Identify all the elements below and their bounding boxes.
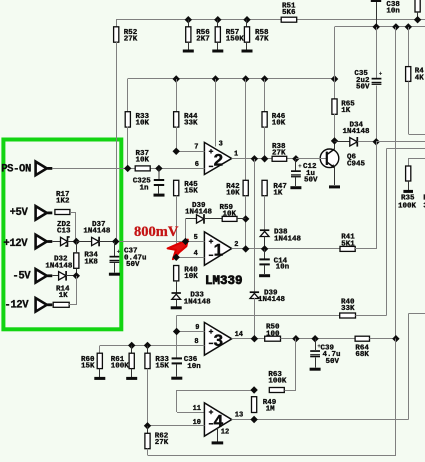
svg-text:1N4148: 1N4148 — [83, 228, 111, 236]
svg-text:1N4148: 1N4148 — [274, 235, 302, 243]
svg-text:50V: 50V — [304, 177, 318, 185]
svg-text:7: 7 — [194, 144, 198, 152]
svg-text:13: 13 — [235, 411, 243, 419]
label +12V — [3, 238, 28, 250]
ground R57 — [212, 42, 223, 52]
resistor R49 — [252, 397, 277, 414]
red probe arrow — [168, 240, 188, 260]
green highlight box — [3, 140, 121, 330]
ground comparator 4 — [212, 441, 224, 444]
node R63 riser junction — [292, 335, 299, 342]
wire right stub y158.8 — [408, 158, 425, 160]
resistor R38 — [272, 143, 287, 161]
resistor R59 — [220, 204, 246, 221]
node pin8-R33 junction — [144, 342, 151, 349]
svg-text:2: 2 — [214, 150, 223, 169]
wire R65 to collector node — [334, 114, 336, 141]
node pin8-R61 junction — [128, 342, 135, 349]
wire right stub y148 — [387, 148, 425, 150]
node bus2-railB junction — [392, 23, 399, 30]
node out1-D38-C14 junction — [261, 245, 268, 252]
node R49 top junction — [250, 386, 257, 393]
node bus3-R42 junction — [242, 75, 249, 82]
node rail1-R57 junction — [214, 16, 221, 23]
svg-text:1N4148: 1N4148 — [184, 298, 212, 306]
pin 13 label — [235, 411, 243, 419]
node out4-R49 junction — [250, 416, 257, 423]
svg-text:27K: 27K — [124, 36, 138, 44]
pin 10 wire — [144, 419, 205, 430]
resistor R64 — [355, 336, 369, 359]
wire bus3 left corner down — [127, 79, 129, 113]
svg-text:1K: 1K — [59, 292, 69, 300]
node bus3 right end junction — [331, 75, 338, 82]
op-amp U1C comparator 3 — [204, 322, 231, 355]
svg-text:5K1: 5K1 — [341, 240, 355, 248]
pin 12 stub — [218, 428, 230, 441]
wire comp4 output — [232, 419, 409, 421]
svg-text:10K: 10K — [226, 190, 240, 198]
pin 9 wire — [173, 324, 205, 335]
svg-text:27K: 27K — [272, 150, 286, 158]
wire pin9 riser — [176, 316, 178, 358]
svg-text:5: 5 — [194, 234, 198, 242]
svg-text:68K: 68K — [355, 351, 369, 359]
svg-text:10n: 10n — [276, 264, 290, 272]
node rail1-R58 junction — [243, 16, 250, 23]
wire Q6 collector — [334, 141, 336, 149]
wire R45 to pin4 node — [176, 196, 178, 258]
pin 7 wire — [173, 144, 205, 155]
svg-text:1K: 1K — [341, 107, 351, 115]
node out3 junction — [251, 335, 258, 342]
node C39 junction — [311, 335, 318, 342]
node out2-rail junction — [251, 155, 258, 162]
wire R40-33K right to rail — [355, 315, 386, 317]
node R37-C325 junction — [155, 165, 162, 172]
wire comp3 output — [232, 338, 265, 340]
ground C325 — [154, 186, 165, 197]
resistor R51 — [281, 3, 297, 23]
ground D33 — [171, 299, 182, 309]
pin 1 label — [234, 151, 238, 159]
resistor R37 — [135, 150, 150, 171]
wire R50 to C39 — [281, 338, 356, 340]
input arrow -5V — [36, 269, 53, 283]
pin 6 wire — [159, 161, 205, 169]
wire comparator output rail — [254, 159, 256, 292]
svg-text:-12V: -12V — [4, 300, 29, 312]
svg-text:33K: 33K — [341, 305, 355, 313]
wire R34 leads — [76, 242, 78, 276]
label 800mV — [134, 224, 179, 240]
capacitor C37 — [110, 242, 147, 270]
svg-text:1K: 1K — [273, 190, 283, 198]
pin 5 wire — [116, 234, 205, 245]
wire R33 down to pin10 node — [147, 369, 149, 426]
svg-text:10K: 10K — [223, 211, 237, 219]
node B junction — [99, 238, 119, 245]
wire R62 bottom loop — [148, 449, 396, 456]
ground R58 — [242, 42, 253, 52]
svg-text:PS-ON: PS-ON — [1, 164, 31, 176]
svg-text:50V: 50V — [326, 358, 340, 366]
diode D39 loop — [185, 202, 222, 241]
svg-text:15K: 15K — [155, 363, 169, 371]
label R35 — [398, 194, 417, 210]
svg-text:1M: 1M — [266, 406, 276, 414]
input arrow PS-ON — [36, 162, 53, 176]
resistor R35 100K — [406, 159, 411, 181]
wire out4 up right — [408, 313, 425, 419]
resistor R58 — [244, 20, 269, 44]
wire D34 to C35 node — [357, 141, 376, 143]
svg-text:150K: 150K — [226, 36, 245, 44]
pin 8 wire — [100, 338, 205, 346]
wire top +V rail — [116, 19, 425, 21]
svg-text:1N4148: 1N4148 — [45, 262, 73, 270]
ground R56 — [183, 42, 194, 52]
svg-text:100K: 100K — [111, 363, 130, 371]
diode D33 — [172, 292, 212, 307]
capacitor C12 — [291, 159, 318, 185]
svg-text:1N4148: 1N4148 — [258, 296, 286, 304]
ground C39 — [310, 357, 321, 370]
node bus3-R46 junction — [261, 75, 268, 82]
label +5V — [10, 207, 29, 219]
ground C37 — [109, 263, 120, 276]
ground C36 — [171, 364, 182, 379]
node rail1-R56 junction — [185, 16, 192, 23]
svg-text:50V: 50V — [126, 261, 140, 269]
svg-text:11: 11 — [193, 405, 201, 413]
node bus3-comp2 power junction — [212, 75, 219, 82]
node bus2-C38/C35 junction — [373, 23, 380, 30]
label -12V — [4, 300, 29, 312]
wire R46 to comp2 output — [264, 126, 266, 159]
svg-text:2K7: 2K7 — [196, 36, 210, 44]
op-amp U1A comparator 1 — [204, 232, 231, 265]
svg-text:100K: 100K — [268, 378, 287, 386]
wire R60 corner — [99, 345, 101, 353]
resistor R41 — [340, 234, 355, 252]
resistor R50 — [265, 324, 281, 342]
resistor R47 — [262, 180, 287, 197]
capacitor C325 — [133, 168, 165, 192]
node bus2-R48 junction — [405, 23, 412, 30]
wire R63 riser — [284, 339, 296, 391]
resistor R42 — [226, 180, 248, 197]
svg-text:1n: 1n — [140, 184, 150, 192]
input arrow +5V — [36, 206, 53, 220]
diode D37 — [76, 221, 111, 246]
resistor R40 33K — [340, 298, 356, 318]
resistor R46 — [262, 79, 286, 128]
node out2-R47 junction — [261, 155, 268, 162]
resistor R45 — [174, 180, 199, 195]
ground R60 — [94, 369, 105, 380]
resistor R44 — [174, 79, 198, 128]
op-amp U1D comparator 4 — [204, 403, 231, 436]
ground C14 — [259, 265, 270, 277]
svg-text:33K: 33K — [184, 120, 198, 128]
wire R14 up to node C — [69, 276, 76, 305]
wire R52 lead down to +12V sense node — [116, 42, 118, 241]
resistor R34 — [74, 252, 99, 269]
svg-text:3: 3 — [214, 331, 223, 350]
wire comp2 power pin3 — [216, 79, 223, 149]
resistor R33 10K upper — [125, 112, 149, 128]
node A junction — [68, 238, 80, 245]
capacitor C14 — [259, 249, 289, 272]
svg-text:10n: 10n — [386, 8, 400, 16]
node C junction — [66, 272, 80, 279]
pin 11 label — [193, 405, 201, 413]
svg-text:R35: R35 — [401, 194, 415, 202]
svg-text:27K: 27K — [155, 439, 169, 447]
wire PS-ON — [52, 168, 204, 170]
node out2-C12 junction — [292, 155, 299, 162]
wire feedback rail x386 — [386, 149, 388, 316]
svg-text:-5V: -5V — [12, 271, 31, 283]
svg-text:1: 1 — [234, 151, 238, 159]
resistor R62 — [145, 426, 169, 449]
node bus3-R44 junction — [173, 75, 180, 82]
svg-text:C13: C13 — [57, 228, 71, 236]
svg-text:C945: C945 — [347, 161, 366, 169]
wire rail corner to R52 — [116, 19, 118, 27]
pin 2 label — [234, 241, 238, 249]
wire pin11 loop — [177, 390, 255, 413]
capacitor C39 — [310, 339, 340, 366]
svg-text:100K: 100K — [398, 203, 417, 211]
resistor R60 — [81, 353, 102, 371]
wire R17 to node A — [70, 212, 76, 242]
svg-text:3: 3 — [219, 141, 223, 149]
diode D39 vertical — [250, 290, 286, 305]
node out1-R42 junction — [242, 245, 249, 252]
wire D38 to out1 wire — [264, 237, 266, 249]
input arrow -12V — [36, 298, 53, 312]
svg-text:10K: 10K — [136, 120, 150, 128]
wire sense bus3 — [128, 78, 335, 80]
node PS-ON-R33 junction — [124, 165, 131, 172]
resistor R48 4K — [406, 27, 425, 82]
svg-text:10K: 10K — [136, 157, 150, 165]
wire R42 rail upper — [245, 79, 247, 181]
node D34-C35-R41 junction — [373, 138, 380, 145]
wire Q6 emitter — [334, 168, 336, 186]
transistor Q6 — [296, 149, 366, 169]
label PS-ON — [1, 164, 31, 176]
resistor R33 15K — [145, 345, 170, 370]
ground Q6 emitter — [329, 185, 340, 188]
wire railB lower — [395, 339, 397, 456]
svg-text:100: 100 — [266, 330, 280, 338]
svg-text:12: 12 — [221, 429, 229, 437]
label R36 cut at edge — [423, 194, 425, 210]
pin 4 wire — [173, 250, 205, 261]
svg-text:10n: 10n — [187, 363, 201, 371]
wire R64 to railB — [370, 338, 396, 340]
resistor R17 — [55, 191, 70, 214]
svg-text:800mV: 800mV — [134, 224, 179, 240]
capacitor C36 — [172, 356, 202, 371]
node R42-loop junction — [242, 215, 249, 222]
label -5V — [12, 271, 31, 283]
wire comp1 output — [232, 248, 340, 250]
capacitor C35 — [354, 27, 382, 92]
svg-text:1N4148: 1N4148 — [343, 128, 371, 136]
ground R35 — [403, 181, 413, 193]
svg-text:9: 9 — [195, 324, 199, 332]
wire R40 to D33 — [176, 281, 178, 293]
svg-text:1K8: 1K8 — [84, 258, 98, 266]
zener ZD2 C13 — [52, 221, 71, 246]
wire comp2 output — [232, 158, 296, 160]
wire R47 to D38 — [264, 196, 266, 231]
wire feedback R40-33K — [177, 315, 340, 317]
wire collector node to right edge — [376, 141, 425, 143]
wire R33 down to PS-ON node — [127, 126, 129, 168]
svg-text:+5V: +5V — [10, 207, 29, 219]
wire R42 down — [245, 196, 247, 249]
svg-text:10K: 10K — [184, 273, 198, 281]
svg-text:+12V: +12V — [3, 238, 28, 250]
diode D38 — [260, 229, 302, 244]
svg-text:10K: 10K — [272, 120, 286, 128]
wire R48 to right edge — [408, 81, 425, 134]
op-amp U1B comparator 2 — [204, 142, 231, 174]
input arrow +12V — [36, 235, 53, 249]
svg-text:5K6: 5K6 — [282, 9, 296, 17]
resistor R14 — [53, 285, 70, 307]
resistor R57 — [215, 20, 244, 44]
resistor top-right (cut) — [415, 0, 420, 20]
svg-text:1K2: 1K2 — [56, 198, 70, 206]
resistor R65 — [332, 27, 355, 115]
svg-text:10: 10 — [193, 419, 201, 427]
svg-text:LM339: LM339 — [205, 274, 243, 288]
resistor R63 — [268, 371, 287, 393]
svg-text:8: 8 — [194, 338, 198, 346]
pin 14 label — [235, 331, 243, 339]
diode D32 — [45, 256, 73, 281]
svg-text:6: 6 — [195, 161, 199, 169]
svg-text:15K: 15K — [81, 363, 95, 371]
svg-text:4: 4 — [194, 250, 198, 258]
wire VCC bus2 — [335, 26, 425, 28]
label LM339 — [205, 274, 243, 288]
capacitor C38 — [371, 0, 401, 27]
svg-text:1N4148: 1N4148 — [185, 209, 213, 217]
svg-text:47K: 47K — [255, 36, 269, 44]
wire rail B vertical — [395, 27, 397, 339]
wire R41 up to collector node — [355, 142, 376, 249]
node rail1 right junction — [414, 16, 421, 23]
svg-text:+: + — [379, 71, 383, 78]
resistor R40 10K — [174, 266, 199, 281]
wire D39 to comp3 output — [254, 298, 256, 339]
wire C35 to Q6 collector node — [376, 85, 378, 142]
diode D34 — [335, 121, 371, 146]
resistor R52 — [114, 27, 138, 44]
svg-text:15K: 15K — [184, 188, 198, 196]
svg-text:+: + — [298, 163, 302, 170]
node railB-R64 junction — [392, 335, 399, 342]
ground R61 — [126, 369, 137, 380]
wire R44 to pin7 node — [176, 126, 178, 151]
svg-text:+: + — [117, 249, 121, 256]
node Q6 collector junction — [331, 137, 338, 144]
resistor R61 — [111, 345, 135, 370]
svg-text:50V: 50V — [356, 84, 370, 92]
svg-text:1: 1 — [214, 241, 223, 260]
svg-text:4K: 4K — [415, 74, 425, 82]
resistor R56 — [186, 20, 211, 44]
ground C12 — [290, 177, 301, 189]
